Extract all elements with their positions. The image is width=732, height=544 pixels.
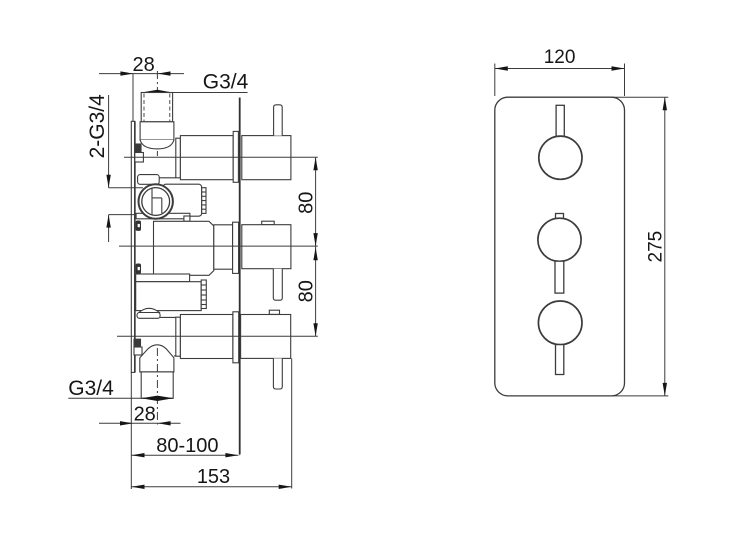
front middle lever bbox=[555, 261, 564, 293]
node arrow 120-left bbox=[495, 66, 508, 70]
screw clip 2 bbox=[136, 221, 141, 231]
bottom knob body bbox=[241, 315, 291, 359]
screw clip 1 bbox=[135, 144, 144, 162]
bottom bell bbox=[140, 345, 174, 372]
bar right step bbox=[184, 216, 190, 221]
trim ring middle bbox=[233, 222, 239, 273]
wire middle knob centerline bbox=[119, 245, 318, 247]
wire pipe thread dashed right bbox=[169, 94, 171, 122]
svg-text:28: 28 bbox=[132, 54, 154, 76]
mounting plate bbox=[131, 121, 134, 372]
screw clip 4 bbox=[134, 339, 142, 355]
node arrow 80a-bottom bbox=[313, 233, 317, 246]
node arrow 80b-bottom bbox=[313, 323, 317, 336]
top port tube bbox=[180, 136, 233, 180]
wire top-28 left extension bbox=[132, 74, 134, 121]
node arrow 120-right bbox=[612, 66, 625, 70]
side cartridge behind circle bbox=[163, 184, 202, 216]
wire top knob centerline bbox=[124, 156, 318, 158]
front middle knob bbox=[538, 218, 581, 261]
ribbed stem lower bbox=[201, 280, 206, 309]
wire 275 dimension line bbox=[664, 97, 666, 396]
node arrow G34-top-left bbox=[142, 90, 158, 95]
main valve body bbox=[154, 221, 214, 275]
node arrow 28b-left bbox=[120, 421, 133, 425]
wire pipe thread dashed left bbox=[143, 94, 145, 122]
svg-text:G3/4: G3/4 bbox=[68, 377, 114, 400]
wire 275 ext top bbox=[612, 96, 668, 98]
top inlet pipe bbox=[141, 93, 172, 122]
screw clip 3 bbox=[136, 264, 141, 274]
node arrow 28b-right bbox=[158, 421, 171, 425]
node arrow 28-left bbox=[120, 71, 133, 75]
wire bottom pipe centerline bbox=[156, 348, 158, 425]
dome cap base bbox=[137, 313, 160, 319]
middle knob nub bbox=[262, 221, 275, 225]
node arrow 28-right bbox=[158, 71, 171, 75]
circle inner step horizontal bbox=[152, 197, 162, 199]
circle inner step vertical bbox=[161, 198, 163, 213]
wire bottom-28 dimension line bbox=[99, 422, 181, 424]
wire 275 ext bottom bbox=[612, 395, 668, 397]
top knob body bbox=[242, 136, 291, 180]
wire boss-to-cap line bbox=[159, 177, 176, 179]
bottom port tube cap bbox=[176, 317, 181, 356]
port circle inner bbox=[142, 188, 170, 216]
svg-text:2-G3/4: 2-G3/4 bbox=[86, 94, 109, 159]
wire 120 dimension line bbox=[495, 68, 625, 70]
node arrow 275-top bbox=[663, 97, 667, 110]
wire 2-G3/4 ext top bbox=[109, 187, 143, 189]
wire top pipe centerline bbox=[156, 71, 158, 156]
wire bottom knob centerline bbox=[117, 335, 318, 337]
node arrow 80-100-right bbox=[225, 453, 238, 457]
wire top-28 dimension line bbox=[99, 73, 184, 75]
wire 153 right extension bbox=[291, 358, 293, 488]
boss above circle bbox=[138, 175, 160, 185]
bottom outlet pipe bbox=[141, 372, 173, 398]
front bottom lever bbox=[556, 345, 564, 375]
node arrow 275-bottom bbox=[663, 383, 667, 396]
node arrow G34-top-right bbox=[157, 90, 172, 95]
node arrow 80-100-left bbox=[132, 453, 145, 457]
node arrow G34-bot-right bbox=[157, 396, 173, 401]
svg-text:80: 80 bbox=[296, 192, 318, 214]
wire 2-G3/4 ext bottom bbox=[109, 214, 143, 216]
wire 120 ext right bbox=[624, 64, 626, 97]
node arrow 153-right bbox=[279, 485, 292, 489]
lower flat bar bbox=[136, 274, 190, 282]
wire bottom G3/4 leader bbox=[68, 397, 173, 399]
top knob lever bbox=[274, 105, 283, 136]
node arrow 2G34-upper bbox=[106, 175, 110, 188]
dome cap arch bbox=[138, 308, 160, 313]
svg-text:28: 28 bbox=[134, 404, 156, 426]
port circle outer bbox=[139, 184, 173, 218]
trim ring top bbox=[233, 131, 238, 182]
circle inner stem vertical bbox=[151, 188, 153, 215]
wire bell-to-tube line bbox=[174, 355, 181, 357]
middle neck bbox=[214, 225, 233, 269]
flat bar under circle bbox=[136, 213, 190, 219]
svg-text:275: 275 bbox=[645, 231, 666, 263]
svg-text:120: 120 bbox=[544, 47, 576, 68]
front middle nub bbox=[556, 214, 564, 219]
lower body block bbox=[136, 282, 202, 311]
2-G3/4 dimension lower line bbox=[108, 215, 110, 242]
svg-text:80: 80 bbox=[296, 280, 318, 302]
node arrow 80b-top bbox=[313, 247, 317, 260]
wall line bbox=[239, 98, 241, 455]
2-G3/4 dimension upper line bbox=[108, 95, 110, 188]
wire plate right edge accent bbox=[134, 121, 136, 372]
front bottom knob bbox=[538, 301, 582, 345]
wire dome-to-tube line bbox=[160, 316, 180, 318]
node arrow 153-left bbox=[132, 485, 145, 489]
wire 153 dimension line bbox=[132, 486, 292, 488]
front top lever bbox=[556, 105, 564, 136]
wire 80-dim vertical line bbox=[315, 157, 317, 336]
wire wall line extension to 80-100 bbox=[239, 453, 241, 456]
node arrow G34-bot-left bbox=[141, 396, 157, 401]
svg-text:G3/4: G3/4 bbox=[203, 71, 249, 94]
middle knob lever bbox=[273, 269, 282, 301]
ribbed stem right of circle bbox=[202, 188, 206, 214]
bottom port tube bbox=[180, 315, 233, 359]
front plate bbox=[495, 97, 625, 396]
front top knob bbox=[539, 136, 582, 179]
svg-text:153: 153 bbox=[197, 466, 230, 488]
node arrow 80a-top bbox=[313, 157, 317, 170]
trim ring bottom bbox=[233, 312, 239, 363]
bottom knob nub bbox=[269, 310, 279, 314]
wire plate lower extension bbox=[130, 372, 132, 489]
top port tube cap bbox=[176, 138, 181, 178]
wire G3/4 top leader bbox=[142, 92, 248, 94]
bottom knob lever bbox=[273, 358, 282, 389]
svg-text:80-100: 80-100 bbox=[156, 435, 218, 457]
top cone bbox=[140, 140, 174, 149]
middle knob body bbox=[242, 225, 291, 269]
node arrow 2G34-lower bbox=[106, 215, 110, 228]
wire 80-100 dimension line bbox=[132, 454, 239, 456]
wire 120 ext left bbox=[494, 64, 496, 97]
top collar bbox=[140, 122, 174, 140]
